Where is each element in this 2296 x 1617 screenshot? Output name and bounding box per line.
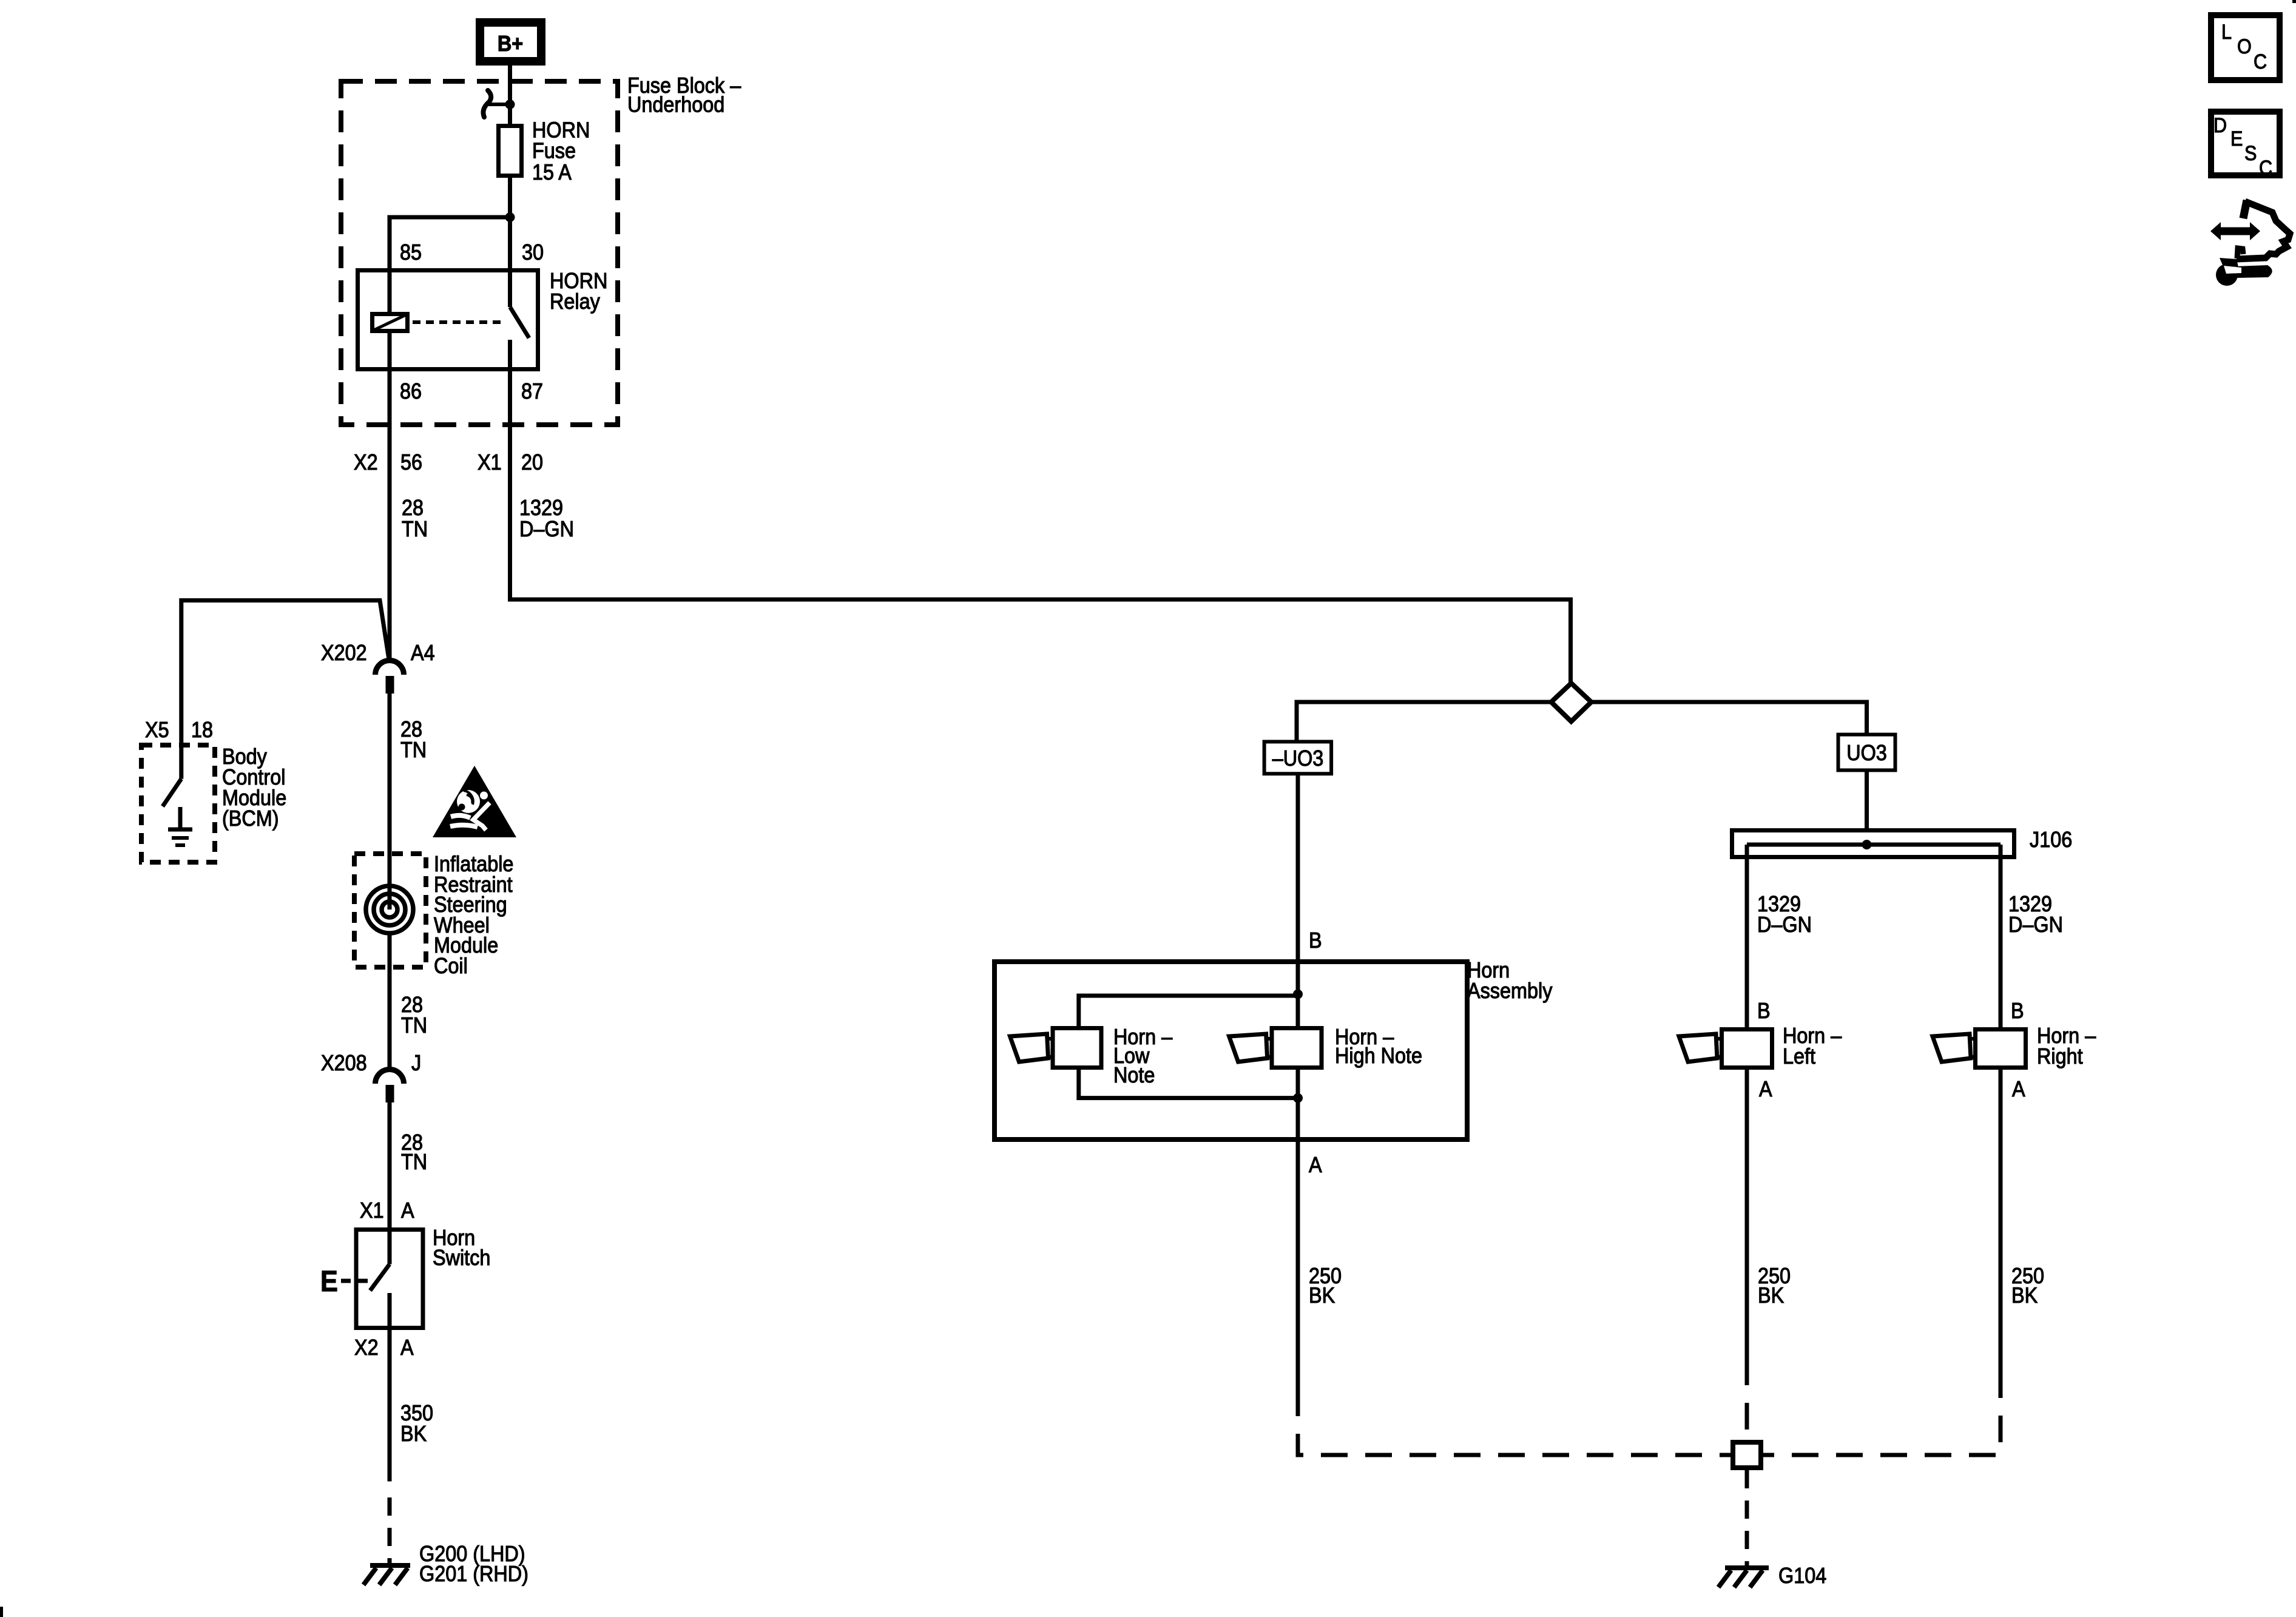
junction dot at tap [505, 100, 515, 109]
junction dot in J106 [1862, 840, 1872, 849]
horn switch internal wire [388, 1229, 392, 1264]
wire 28 TN relay 86 down [388, 371, 392, 661]
Horn High Note label [1335, 1025, 1422, 1068]
svg-text:87: 87 [521, 379, 543, 403]
wire B+ to fuse [508, 66, 512, 217]
wire label 28 TN [400, 717, 427, 762]
coil label [434, 852, 513, 978]
wire 1329 D-GN relay 87 down and right [510, 371, 1571, 683]
wire horn left down [1745, 1068, 1749, 1359]
wire UO3 to J106 [1865, 770, 1869, 845]
Horn Switch label [433, 1226, 490, 1270]
wire J106 to horn left [1745, 845, 1749, 1029]
svg-text:O: O [2237, 35, 2252, 58]
horn low note component box [1053, 1028, 1101, 1068]
wire label 250 BK horn left [1758, 1264, 1791, 1308]
horn left trumpet [1706, 1039, 1722, 1057]
svg-text:X202: X202 [321, 641, 367, 665]
svg-text:A: A [1309, 1153, 1322, 1177]
wire diamond to UO3 [1592, 702, 1867, 733]
bus tap hook symbol [483, 90, 491, 117]
wire coil to X208 [388, 933, 392, 1069]
connector X208 pin J [376, 1070, 404, 1102]
svg-text:TN: TN [402, 517, 428, 541]
svg-text:A: A [2012, 1077, 2025, 1101]
dashed wire horn assembly to splice [1298, 1389, 1730, 1455]
svg-text:20: 20 [521, 450, 543, 474]
wire horn high note through [1296, 994, 1300, 1098]
wire label 250 BK [1309, 1264, 1342, 1308]
ground G104 [1718, 1568, 1769, 1587]
wire X208 to horn switch [388, 1102, 392, 1229]
svg-text:J106: J106 [2030, 828, 2072, 852]
svg-text:G104: G104 [1778, 1564, 1826, 1588]
wire branch to relay coil pin 85 [390, 217, 510, 268]
junction node bottom of horn loop [1293, 1093, 1303, 1103]
wire label 28 TN [401, 1130, 427, 1174]
HORN Relay label [550, 269, 607, 314]
horn switch pin labels X1 A [360, 1198, 414, 1223]
svg-text:Relay: Relay [550, 289, 601, 314]
svg-text:G201 (RHD): G201 (RHD) [419, 1562, 528, 1586]
svg-text:UO3: UO3 [1846, 741, 1887, 765]
svg-text:E: E [320, 1265, 338, 1298]
relay K HORN Relay box [358, 271, 538, 370]
BCM connector labels X5 18 [145, 718, 213, 742]
horn switch box [356, 1230, 423, 1328]
-UO3 option box [1264, 741, 1332, 774]
dashed wire splice to ground [1745, 1470, 1749, 1565]
Horn Right label [2037, 1024, 2096, 1068]
wire loop to horn low note [1079, 996, 1298, 1028]
airbag caution triangle icon [433, 766, 516, 837]
wire label 1329 D-GN [519, 496, 574, 541]
svg-text:X1: X1 [360, 1198, 384, 1223]
svg-text:Left: Left [1783, 1044, 1815, 1068]
wire 350 BK [388, 1330, 392, 1482]
svg-text:28: 28 [402, 496, 424, 520]
fuse block underhood dashed box [341, 81, 618, 425]
svg-text:B: B [2011, 999, 2024, 1023]
svg-text:BK: BK [400, 1422, 427, 1446]
horn high note component box [1272, 1028, 1322, 1068]
wire labels 1329 D-GN right [2008, 892, 2063, 937]
wire label 28 TN [401, 993, 427, 1038]
splice diamond node [1551, 683, 1592, 721]
actuator dashed link [341, 1279, 373, 1283]
relay coil wire [388, 270, 392, 312]
horn high note trumpet [1257, 1039, 1270, 1057]
svg-text:X2: X2 [354, 450, 378, 474]
inflatable restraint coil dashed box [354, 854, 426, 967]
horn low note trumpet [1038, 1039, 1051, 1057]
body control module dashed box [141, 745, 215, 862]
wire horn right down [1999, 1068, 2003, 1371]
svg-text:C: C [2254, 50, 2267, 73]
svg-text:D–GN: D–GN [1757, 913, 1812, 937]
svg-text:18: 18 [191, 718, 213, 742]
svg-text:D–GN: D–GN [2008, 913, 2063, 937]
horn left component box [1722, 1030, 1772, 1068]
svg-text:TN: TN [401, 1013, 427, 1038]
svg-text:Underhood: Underhood [627, 93, 724, 117]
interactive hand tool icon [2210, 200, 2290, 286]
svg-text:1329: 1329 [519, 496, 563, 520]
Horn Low Note label [1113, 1025, 1173, 1087]
tap wire [488, 103, 508, 106]
ground labels [419, 1542, 528, 1586]
svg-text:(BCM): (BCM) [222, 806, 279, 831]
horn right trumpet [1960, 1039, 1976, 1057]
svg-text:Note: Note [1113, 1063, 1155, 1087]
relay pin 87 internal wire [508, 340, 512, 371]
BCM label [222, 744, 286, 831]
relay switch arm [510, 307, 530, 338]
svg-text:Coil: Coil [434, 954, 468, 978]
wire label 250 BK horn right [2011, 1264, 2044, 1308]
DESC legend box [2211, 112, 2280, 175]
relay coil element [373, 314, 408, 331]
fuse F HORN 15A [499, 126, 522, 176]
svg-text:15 A: 15 A [532, 160, 572, 184]
svg-text:30: 30 [522, 240, 544, 265]
svg-text:85: 85 [400, 240, 422, 265]
svg-text:X5: X5 [145, 718, 169, 742]
svg-text:X1: X1 [478, 450, 502, 474]
wire label 28 TN [402, 496, 428, 541]
svg-text:–UO3: –UO3 [1272, 746, 1324, 771]
battery feed B+ terminal [476, 18, 545, 66]
svg-text:E: E [2230, 127, 2243, 150]
svg-text:A: A [401, 1198, 414, 1223]
wire fuse to relay pin 30 [508, 217, 512, 268]
wire branch to BCM [181, 601, 389, 779]
svg-text:L: L [2221, 21, 2232, 44]
junction node top of horn loop [1293, 990, 1303, 999]
relay coil to pin 86 wire [388, 331, 392, 372]
svg-text:Right: Right [2037, 1044, 2083, 1068]
svg-text:TN: TN [400, 738, 427, 762]
svg-text:B: B [1309, 928, 1322, 953]
BCM internal ground [168, 807, 192, 845]
UO3 option box [1838, 735, 1896, 771]
horn assembly box [994, 962, 1467, 1139]
wire label 350 BK [400, 1401, 433, 1446]
Horn Assembly label [1467, 958, 1553, 1003]
junction node below fuse [505, 212, 515, 222]
Horn Left label [1783, 1024, 1842, 1068]
svg-text:BK: BK [1309, 1283, 1335, 1308]
svg-text:B+: B+ [498, 32, 523, 56]
svg-text:56: 56 [400, 450, 422, 474]
svg-text:A: A [1759, 1077, 1772, 1101]
HORN Fuse 15 A label [532, 118, 590, 184]
BCM internal switch arm [163, 779, 181, 806]
svg-text:S: S [2244, 142, 2257, 165]
wire horn assembly pin A down [1296, 1098, 1300, 1389]
svg-text:X208: X208 [321, 1051, 367, 1075]
svg-text:X2: X2 [354, 1335, 379, 1360]
svg-text:Assembly: Assembly [1467, 979, 1553, 1003]
wire -UO3 to horn assembly pin B [1296, 774, 1300, 994]
svg-text:D–GN: D–GN [519, 517, 574, 541]
wire X202 to coil [388, 694, 392, 910]
dashed wire horn left to splice square [1745, 1359, 1749, 1440]
svg-text:BK: BK [2011, 1283, 2038, 1308]
svg-text:D: D [2213, 114, 2227, 137]
svg-text:B: B [1757, 999, 1771, 1023]
wire J106 to horn right [1999, 845, 2003, 1029]
LOC legend box [2211, 15, 2280, 80]
splice pack J106 [1732, 831, 2014, 857]
ground G200/G201 [363, 1565, 410, 1585]
horn switch pin labels X2 A [354, 1335, 414, 1360]
svg-text:A: A [400, 1335, 414, 1360]
wire labels 1329 D-GN left [1757, 892, 1812, 937]
horn switch lower contact [388, 1293, 392, 1330]
connector X202 pin A4 [376, 661, 404, 694]
clockspring coil symbol [366, 886, 413, 933]
svg-text:BK: BK [1758, 1283, 1784, 1308]
svg-text:High Note: High Note [1335, 1044, 1422, 1068]
dashed wire horn right to splice [1763, 1371, 2001, 1455]
horn switch arm [370, 1264, 390, 1291]
svg-text:C: C [2259, 157, 2272, 180]
svg-text:Fuse: Fuse [532, 139, 576, 163]
svg-text:TN: TN [401, 1150, 427, 1174]
horn right component box [1976, 1030, 2026, 1068]
svg-text:J: J [411, 1051, 421, 1075]
svg-text:A4: A4 [411, 641, 435, 665]
svg-text:Switch: Switch [433, 1246, 490, 1270]
wire diamond to -UO3 [1297, 702, 1551, 740]
connector pin labels X2 56 X1 20 [354, 450, 543, 474]
fuse block label [627, 73, 741, 116]
relay actuating dashed link [413, 320, 505, 324]
dashed wire to ground [388, 1497, 392, 1565]
wire horn low note to bottom loop [1079, 1068, 1298, 1098]
ground splice square [1733, 1442, 1761, 1468]
relay pin 30 internal wire [508, 270, 512, 307]
svg-text:86: 86 [400, 379, 422, 403]
